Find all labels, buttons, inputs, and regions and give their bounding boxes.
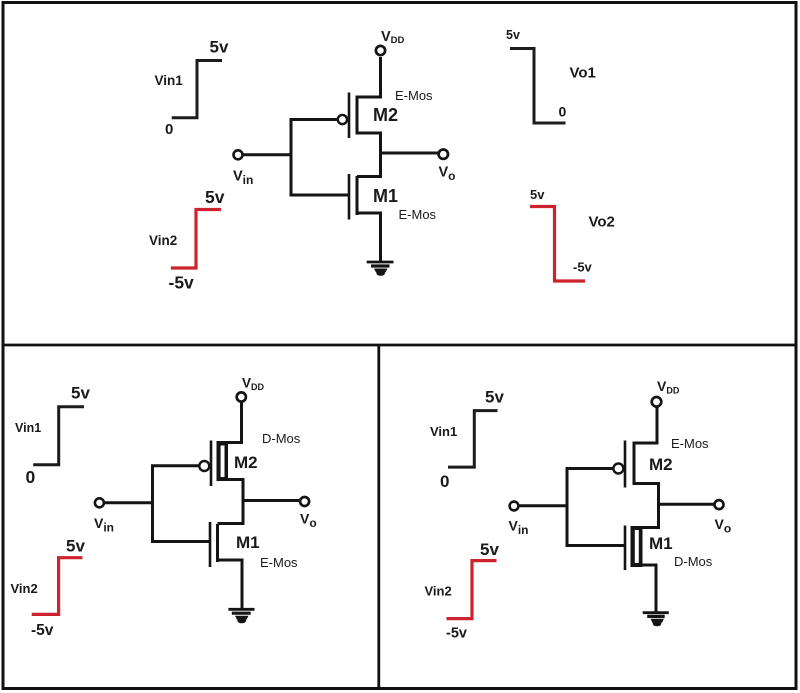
svg-text:M2: M2: [373, 105, 398, 125]
output terminal Vo (panel 1): [439, 150, 448, 159]
svg-text:D-Mos: D-Mos: [674, 554, 713, 569]
waveform Vin1 step (panel 2): [33, 407, 84, 465]
svg-text:Vin2: Vin2: [149, 233, 177, 248]
svg-text:VDD: VDD: [242, 376, 265, 393]
output terminal Vo (panel 2): [300, 497, 309, 506]
svg-text:5v: 5v: [210, 38, 229, 57]
svg-text:Vin1: Vin1: [430, 424, 457, 439]
svg-text:Vin1: Vin1: [15, 421, 41, 435]
input terminal Vin (panel 2): [95, 498, 104, 507]
input terminal Vin (panel 1): [234, 150, 243, 159]
wire M1 source to ground (panel 3): [643, 565, 657, 612]
svg-text:0: 0: [559, 104, 567, 120]
wire Vin to gate branch (panel 2): [105, 501, 154, 504]
svg-text:Vin1: Vin1: [155, 73, 184, 88]
wire Vin to gate branch (panel 3): [519, 504, 567, 507]
svg-text:M1: M1: [649, 534, 673, 553]
wire M1 source to ground (panel 1): [357, 213, 381, 261]
wire branch to M2 gate bubble (panel 3): [566, 467, 614, 470]
wire output node to Vo (panel 2): [243, 499, 300, 502]
supply terminal VDD (panel 1): [376, 46, 385, 55]
wire output node to M1 drain (panel 2): [218, 522, 244, 525]
svg-text:-5v: -5v: [169, 273, 195, 293]
transistor M2 E-Mos (panel 1): [338, 93, 357, 139]
supply terminal VDD (panel 2): [237, 392, 246, 401]
wire M2 source to output node (panel 3): [634, 484, 659, 530]
svg-text:Vin2: Vin2: [11, 581, 38, 596]
wire Vin to gate branch (panel 1): [244, 153, 293, 156]
svg-text:M1: M1: [373, 186, 398, 206]
svg-text:-5v: -5v: [446, 626, 467, 642]
waveform Vo1 step down (panel 1): [510, 49, 566, 124]
wire M2 source to output node (panel 2): [228, 480, 243, 526]
svg-text:5v: 5v: [66, 537, 85, 556]
svg-text:M2: M2: [649, 455, 673, 474]
wire M1 source to ground (panel 2): [218, 560, 243, 609]
ground symbol (panel 3): [643, 613, 669, 627]
wire branch to M2 gate bubble (panel 1): [290, 118, 339, 121]
wire VDD to M2 drain (panel 1): [357, 57, 381, 97]
svg-text:0: 0: [26, 467, 36, 487]
svg-text:VDD: VDD: [381, 29, 405, 46]
wire output node to M1 drain (panel 3): [643, 526, 659, 529]
svg-text:-5v: -5v: [31, 622, 54, 639]
input terminal Vin (panel 3): [510, 502, 519, 511]
wire VDD to M2 drain (panel 3): [634, 407, 657, 443]
svg-text:5v: 5v: [205, 187, 225, 207]
transistor M1 D-Mos (panel 3): [625, 526, 643, 571]
transistor M1 E-Mos (panel 2): [210, 522, 218, 567]
svg-text:Vin: Vin: [509, 518, 529, 538]
transistor M2 E-Mos (panel 3): [613, 441, 634, 488]
wire branch to M1 gate (panel 2): [151, 540, 210, 543]
svg-text:E-Mos: E-Mos: [671, 436, 709, 451]
waveform Vin1 step (panel 3): [448, 411, 498, 468]
waveform Vo2 step down (panel 1, red): [530, 207, 585, 282]
ground symbol (panel 1): [367, 262, 394, 276]
wire gate branch vertical (panel 2): [151, 465, 154, 544]
svg-text:E-Mos: E-Mos: [395, 88, 433, 103]
wire branch to M2 gate bubble (panel 2): [151, 464, 199, 467]
waveform Vin2 step (panel 2, red): [32, 558, 83, 615]
wire gate branch vertical (panel 3): [566, 467, 569, 547]
waveform Vin1 step (panel 1): [172, 61, 222, 118]
transistor M2 D-Mos (panel 2): [199, 441, 228, 487]
waveform Vin2 step (panel 3, red): [447, 561, 497, 619]
svg-text:M2: M2: [234, 453, 258, 472]
supply terminal VDD (panel 3): [652, 397, 662, 407]
wire output node to M1 drain (panel 1): [357, 151, 381, 177]
svg-text:Vo2: Vo2: [589, 214, 615, 231]
wire VDD to M2 drain (panel 2): [227, 403, 242, 443]
svg-text:D-Mos: D-Mos: [262, 431, 301, 446]
wire branch to M1 gate (panel 1): [290, 194, 350, 197]
svg-text:0: 0: [165, 121, 173, 138]
svg-text:M1: M1: [236, 533, 260, 552]
svg-text:5v: 5v: [506, 28, 520, 42]
wire output node to Vo (panel 1): [381, 152, 439, 155]
svg-text:5v: 5v: [71, 384, 90, 403]
wire branch to M1 gate (panel 3): [566, 544, 626, 547]
svg-text:Vin: Vin: [94, 515, 114, 535]
svg-text:E-Mos: E-Mos: [399, 207, 437, 222]
svg-text:Vo: Vo: [300, 511, 317, 531]
wire gate branch vertical (panel 1): [290, 118, 293, 197]
svg-text:5v: 5v: [485, 388, 504, 407]
svg-text:0: 0: [440, 472, 449, 491]
waveform Vin2 step (panel 1, red): [171, 210, 221, 269]
wire output node to Vo (panel 3): [659, 503, 715, 506]
svg-text:5v: 5v: [480, 540, 499, 559]
svg-text:Vin: Vin: [233, 169, 253, 188]
svg-text:VDD: VDD: [657, 378, 680, 396]
svg-text:Vo: Vo: [439, 165, 456, 184]
svg-text:E-Mos: E-Mos: [260, 555, 298, 570]
svg-text:Vo1: Vo1: [570, 65, 596, 82]
svg-text:-5v: -5v: [573, 260, 593, 275]
svg-text:Vo: Vo: [715, 516, 732, 536]
output terminal Vo (panel 3): [715, 500, 724, 509]
wire M2 source to output node (panel 1): [357, 133, 381, 154]
transistor M1 E-Mos (panel 1): [349, 174, 357, 220]
ground symbol (panel 2): [228, 609, 254, 623]
svg-text:5v: 5v: [530, 187, 545, 202]
svg-text:Vin2: Vin2: [425, 584, 452, 599]
